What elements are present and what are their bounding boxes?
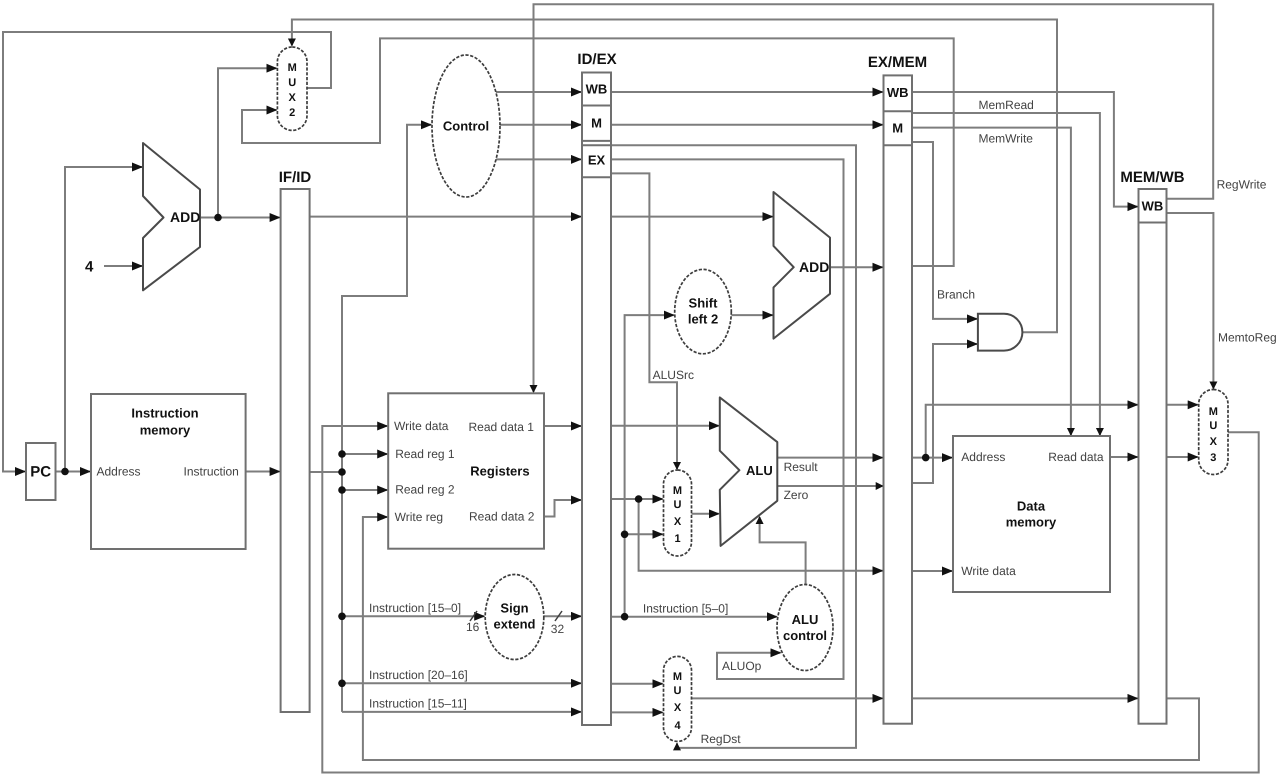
node: PC+4 junction after ADD: [214, 214, 222, 222]
svg-text:Instruction: Instruction: [184, 465, 239, 479]
wire: MUX2 output loop to PC input: [3, 32, 331, 472]
svg-text:ADD: ADD: [170, 209, 200, 225]
wire: PC+4 branch up to MUX2 input 0: [218, 68, 276, 217]
wire: IF/ID instruction output to distribution node: [310, 471, 342, 473]
svg-text:WB: WB: [1142, 198, 1164, 213]
wire: ID/EX to MUX4 input 0: [611, 683, 663, 685]
wire: PCSrc from AND gate to MUX2 select: [292, 20, 1057, 333]
wire: MEM/WB to MUX3 input 1: [1167, 456, 1198, 458]
wire: ID/EX Read data 2 to MUX1 input 0: [611, 498, 663, 500]
wire: Read data 2 tap down to EX/MEM write data: [639, 499, 883, 571]
svg-text:M: M: [673, 671, 682, 683]
node: instruction bus junction read reg 2: [338, 486, 346, 494]
instruction memory: [91, 394, 246, 549]
register PC: [26, 443, 56, 500]
svg-text:ID/EX: ID/EX: [577, 51, 616, 68]
svg-text:M: M: [1209, 406, 1218, 418]
wire: EX/MEM ALU result to Data memory Address: [912, 457, 952, 459]
svg-text:Read data: Read data: [1048, 450, 1104, 464]
svg-text:U: U: [674, 685, 682, 697]
svg-text:4: 4: [85, 258, 94, 275]
wire: Instruction memory output to IF/ID: [246, 471, 280, 473]
svg-text:Address: Address: [97, 465, 141, 479]
svg-text:U: U: [674, 499, 682, 511]
pipeline register EX/MEM with WB M fields: [868, 54, 927, 724]
svg-text:left 2: left 2: [688, 311, 718, 326]
svg-text:WB: WB: [887, 85, 909, 100]
svg-text:X: X: [674, 516, 682, 528]
svg-text:Registers: Registers: [470, 463, 529, 478]
wire: immediate vertical tap to Shift left 2: [625, 315, 674, 617]
svg-text:MemtoReg: MemtoReg: [1218, 331, 1277, 345]
svg-text:PC: PC: [30, 463, 51, 480]
svg-text:16: 16: [466, 620, 480, 634]
svg-text:Read data 1: Read data 1: [469, 420, 535, 434]
ALU control ellipse: [777, 585, 833, 671]
svg-text:Shift: Shift: [689, 295, 719, 310]
label: 16 bit width tick: [466, 611, 480, 634]
svg-text:Instruction: Instruction: [131, 405, 198, 420]
svg-text:X: X: [1210, 436, 1218, 448]
svg-text:X: X: [289, 92, 297, 104]
svg-text:Write data: Write data: [394, 419, 449, 433]
svg-text:Instruction [20–16]: Instruction [20–16]: [369, 668, 468, 682]
wire: Shift left 2 output to branch ADD: [731, 314, 772, 316]
wire: Sign extend output to ID/EX: [544, 615, 581, 617]
svg-text:Address: Address: [961, 450, 1005, 464]
svg-text:Read reg 1: Read reg 1: [395, 447, 455, 461]
svg-text:extend: extend: [494, 616, 536, 631]
svg-text:32: 32: [551, 622, 565, 636]
node: read data 2 junction: [635, 495, 643, 503]
wire: instruction to Registers Read reg 2: [342, 489, 387, 491]
wire: Registers Read data 2 to ID/EX: [544, 500, 581, 517]
wire: Instruction [15-11] to ID/EX: [342, 711, 581, 713]
wire: EX/MEM register number to MEM/WB: [912, 697, 1138, 699]
registers file: [388, 393, 544, 548]
svg-text:ALU: ALU: [792, 612, 819, 627]
svg-text:U: U: [288, 77, 296, 89]
wire: ALUSrc control drop to MUX1 select: [611, 173, 677, 469]
svg-text:EX/MEM: EX/MEM: [868, 54, 927, 71]
wire: immediate tap to MUX1 input 1: [625, 533, 663, 535]
svg-text:ALU: ALU: [746, 463, 773, 478]
pipeline register ID/EX with WB M EX fields: [577, 51, 616, 725]
svg-text:U: U: [1209, 420, 1217, 432]
AND gate (branch decision): [978, 314, 1022, 351]
wire: Instruction [20-16] to ID/EX: [342, 682, 581, 684]
node: immediate junction to shift: [621, 613, 629, 621]
wire: branch ADD output to EX/MEM: [830, 266, 883, 268]
node: instruction bus junction 20-16: [338, 680, 346, 688]
wire: Instruction [15-0] to Sign extend: [342, 615, 484, 617]
mux MUX1 (ALU operand B): [664, 470, 692, 556]
svg-text:RegWrite: RegWrite: [1217, 178, 1267, 192]
svg-text:Control: Control: [443, 118, 489, 133]
svg-text:Instruction [15–0]: Instruction [15–0]: [369, 601, 461, 615]
wire: IF/ID PC+4 to ID/EX: [310, 216, 581, 218]
adder ADD (PC+4): [143, 143, 200, 290]
wire: ALUOp control drop to ALU control: [611, 159, 844, 679]
wire: PC to Instruction memory Address: [56, 471, 91, 473]
node: immediate junction to MUX1: [621, 531, 629, 539]
svg-text:M: M: [591, 115, 602, 130]
data memory: [953, 436, 1110, 592]
wire: ID/EX M to EX/MEM M: [611, 124, 883, 126]
wire: MemtoReg from MEM/WB to MUX3 select: [1167, 213, 1214, 389]
wire: RegDst control drop to MUX4: [611, 145, 856, 748]
ALU: [720, 397, 778, 546]
svg-text:Instruction [15–11]: Instruction [15–11]: [369, 697, 467, 711]
wire: ID/EX to MUX4 input 1: [611, 711, 663, 713]
svg-text:memory: memory: [140, 422, 191, 437]
svg-text:Instruction [5–0]: Instruction [5–0]: [643, 602, 728, 616]
svg-text:ALUOp: ALUOp: [722, 659, 762, 673]
svg-text:X: X: [674, 702, 682, 714]
svg-text:WB: WB: [586, 81, 608, 96]
wire: Control to ID/EX EX: [495, 158, 581, 160]
wire: Zero flag from EX/MEM to AND gate: [912, 344, 977, 483]
label: 32 bit width tick: [551, 611, 565, 636]
svg-text:RegDst: RegDst: [701, 732, 742, 746]
wire: ID/EX Read data 1 to ALU: [611, 425, 719, 427]
wire: Branch control to AND gate: [912, 142, 977, 319]
wire: ALU control output up to ALU: [760, 517, 806, 584]
svg-text:Result: Result: [784, 460, 819, 474]
wire: branch target from EX/MEM back to MUX2 input 1: [242, 38, 954, 266]
wire: Registers Read data 1 to ID/EX: [544, 425, 581, 427]
svg-text:Branch: Branch: [937, 288, 975, 302]
wire: MemWrite control to Data memory: [912, 128, 1071, 435]
wire: ALU Zero to EX/MEM: [777, 485, 882, 487]
sign extend ellipse: [485, 575, 544, 660]
svg-text:M: M: [288, 62, 297, 74]
wire: ALU Result to EX/MEM: [777, 457, 882, 459]
svg-text:4: 4: [674, 720, 681, 732]
svg-text:MemRead: MemRead: [979, 98, 1034, 112]
wire: ALU result bypass up to MEM/WB: [926, 405, 1138, 458]
wire: Control to ID/EX M: [500, 124, 581, 126]
svg-text:MemWrite: MemWrite: [979, 132, 1034, 146]
mux MUX2 (PC source): [277, 47, 307, 130]
node: ALU result junction: [922, 454, 930, 462]
wire: RegWrite from MEM/WB WB to Registers: [534, 4, 1214, 392]
node: PC output junction: [61, 468, 69, 476]
wire: ID/EX immediate to ALU control (Instruction 5-0): [611, 616, 777, 618]
svg-text:2: 2: [289, 107, 295, 119]
adder ADD (branch target): [774, 192, 831, 339]
svg-text:M: M: [892, 120, 903, 135]
svg-text:Write reg: Write reg: [395, 510, 443, 524]
svg-text:IF/ID: IF/ID: [279, 169, 312, 186]
wire: MEM/WB to MUX3 input 0: [1167, 404, 1198, 406]
wire: ID/EX PC value to branch ADD: [611, 216, 773, 218]
node: instruction bus junction 15-0: [338, 613, 346, 621]
wire: constant 4 into ADD: [104, 265, 142, 267]
wire: instruction to Registers Read reg 1: [342, 453, 387, 455]
svg-text:Write data: Write data: [961, 564, 1016, 578]
pipeline register IF/ID: [279, 169, 312, 712]
mux MUX4 (RegDst): [664, 656, 692, 741]
wire: MEM/WB write register number feedback to Registers: [363, 517, 1199, 760]
node: instruction bus junction read reg 1: [338, 450, 346, 458]
wire: EX/MEM write data to Data memory: [912, 570, 952, 572]
svg-text:1: 1: [674, 533, 680, 545]
wire: MUX1 output to ALU: [692, 513, 719, 515]
control unit ellipse: [432, 55, 500, 197]
shift left 2 ellipse: [675, 269, 732, 353]
wire: Data memory Read data to MEM/WB: [1110, 456, 1138, 458]
svg-text:control: control: [783, 628, 827, 643]
wire: MUX3 output write data feedback to Registers: [322, 426, 1258, 773]
svg-text:EX: EX: [588, 152, 606, 167]
wire: instruction distribution vertical bus: [342, 125, 431, 712]
wire: EX/MEM WB to MEM/WB WB: [912, 92, 1138, 207]
svg-text:Data: Data: [1017, 498, 1046, 513]
svg-text:memory: memory: [1006, 514, 1057, 529]
node: instruction bus junction main: [338, 468, 346, 476]
wire: MUX4 output to EX/MEM: [692, 697, 883, 699]
svg-text:Read data 2: Read data 2: [469, 510, 535, 524]
wire: ID/EX WB to EX/MEM WB: [611, 91, 883, 93]
wire: Control to ID/EX WB: [494, 91, 581, 93]
svg-text:3: 3: [1210, 452, 1216, 464]
wire: PC feedback up to ADD: [65, 167, 142, 472]
svg-text:Sign: Sign: [500, 600, 528, 615]
svg-text:Zero: Zero: [784, 488, 809, 502]
wire: MemRead control to Data memory: [912, 113, 1100, 435]
svg-text:Read reg 2: Read reg 2: [395, 483, 455, 497]
mux MUX3 (MemtoReg): [1199, 390, 1228, 475]
pipeline register MEM/WB with WB field: [1120, 169, 1184, 724]
wire: ADD output PC+4 into IF/ID: [200, 217, 280, 219]
svg-text:ADD: ADD: [799, 259, 829, 275]
svg-text:ALUSrc: ALUSrc: [653, 368, 694, 382]
svg-text:MEM/WB: MEM/WB: [1120, 169, 1184, 186]
svg-text:M: M: [673, 485, 682, 497]
